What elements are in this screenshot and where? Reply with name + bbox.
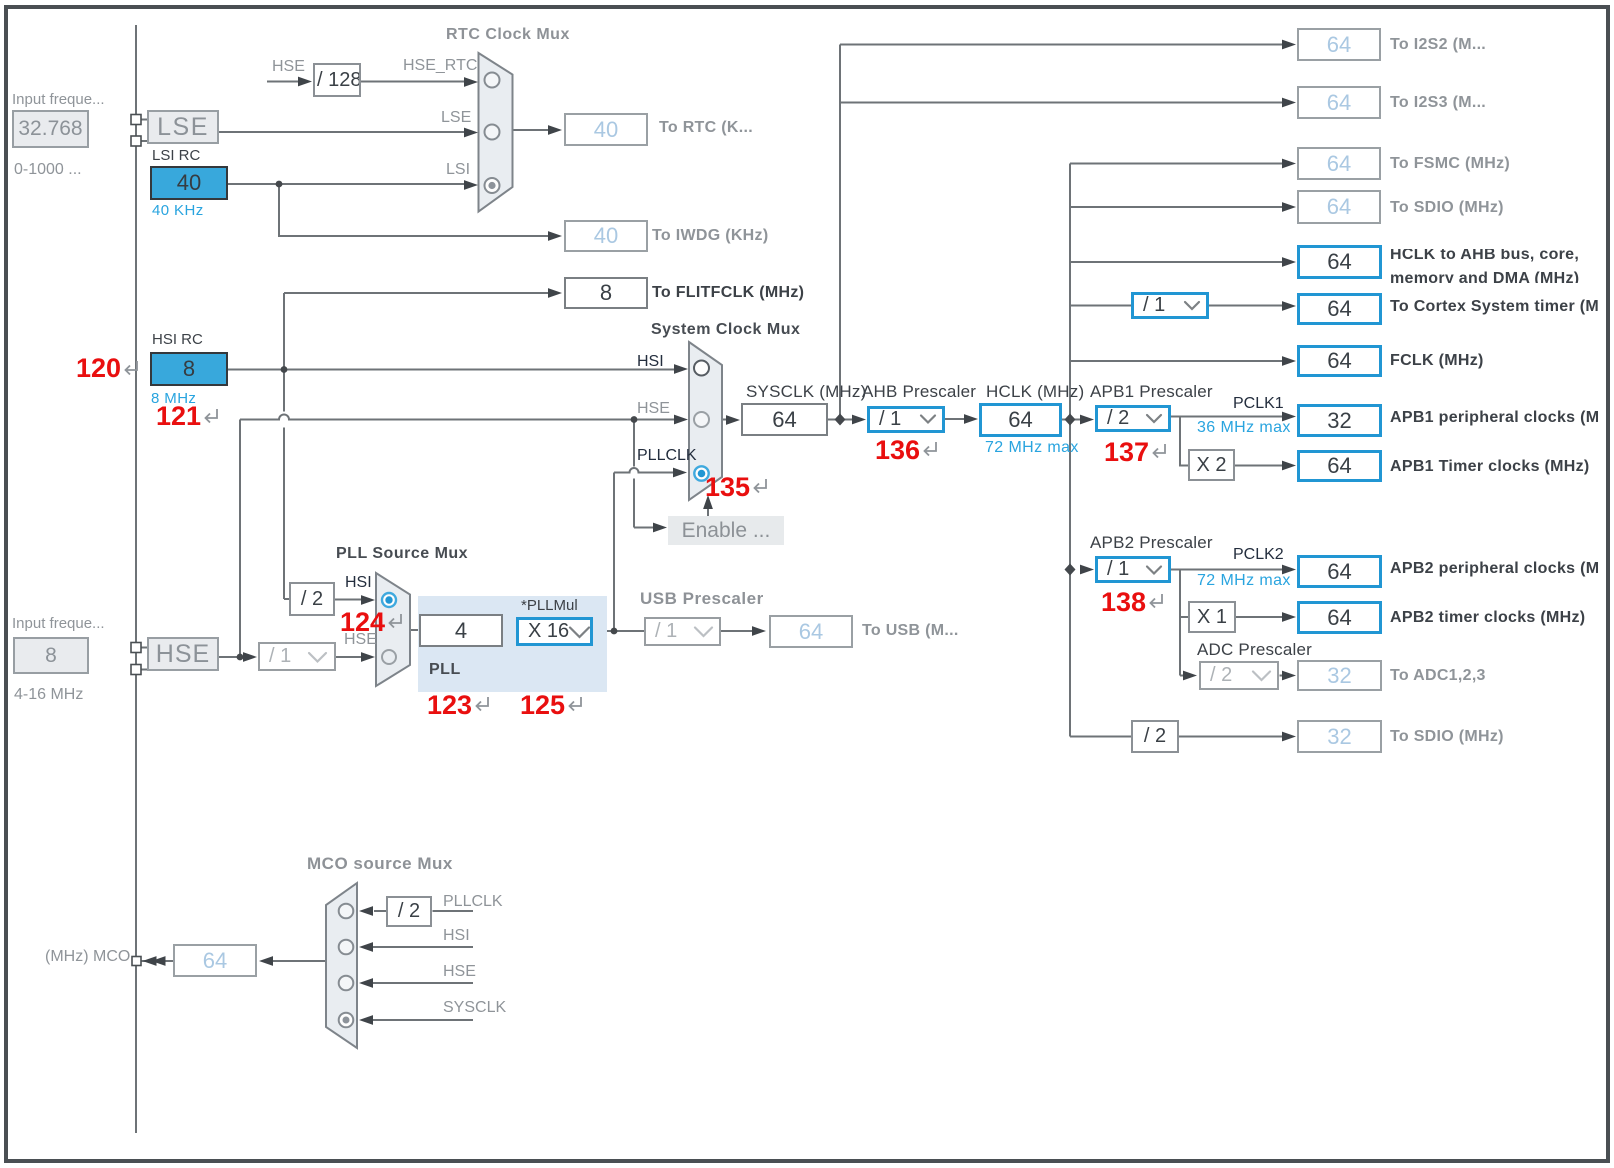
HSE oscillator block — [147, 637, 219, 671]
wire: /128 to RTC mux HSE_RTC input — [361, 81, 466, 83]
arrow into APB1 peripheral box — [1282, 412, 1296, 422]
label To IWDG — [652, 227, 768, 245]
arrow into RTC mux LSE — [464, 128, 478, 138]
label Input frequency (LSE) — [12, 91, 105, 108]
APB2 peripheral value box 64 — [1297, 555, 1382, 588]
APB2 prescaler dropdown /1 — [1095, 556, 1171, 583]
wire: /2 box to PLL mux HSI input — [335, 599, 363, 601]
LSE input frequency box 32.768 — [12, 110, 89, 148]
arrow into APB2 peripheral box — [1282, 565, 1296, 575]
SYSCLK value box 64 — [741, 403, 828, 436]
wire: HSE net vertical up — [239, 420, 241, 658]
arrow into To RTC box — [548, 125, 562, 135]
MCO mux radio SYSCLK (selected gray) — [339, 1013, 354, 1028]
label HCLK to AHB (2 lines, clipped) — [1390, 249, 1579, 283]
To IWDG value box — [564, 220, 648, 252]
arrow into To FLITFCLK box — [548, 288, 562, 298]
wire: X1 to APB2 timer box — [1236, 616, 1283, 618]
label PLLCLK (MCO input) — [443, 893, 503, 911]
label FCLK — [1390, 352, 1484, 370]
HCLK to AHB value box — [1297, 245, 1382, 279]
arrow left into MCO mux SYSCLK — [359, 1015, 373, 1025]
red annotation 121 — [156, 403, 201, 430]
label HSE (to /128) — [272, 58, 305, 76]
MCO output value box 64 — [173, 944, 257, 977]
MCO mux radio HSI (unselected) — [339, 940, 354, 955]
wire: MCO HSE stub — [372, 982, 473, 984]
label HSE (PLL mux input) — [344, 631, 377, 649]
arrow into PLL mux HSI — [361, 595, 375, 605]
port square MCO — [132, 957, 141, 966]
Cortex timer dropdown /1 — [1131, 292, 1209, 319]
System mux radio HSI (unselected) — [694, 361, 709, 376]
System mux radio HSE (unselected) — [694, 412, 709, 427]
To I2S2 value box — [1297, 28, 1381, 61]
arrow into I2S3 box — [1282, 98, 1296, 108]
arrow into FSMC box — [1282, 159, 1296, 169]
return glyph for 137 — [1150, 442, 1170, 460]
PLL mux radio HSE (unselected) — [382, 650, 396, 664]
chevron USB prescaler /1 — [695, 628, 712, 637]
return glyph for 123 — [473, 695, 493, 713]
arrow into APB2 prescaler — [1080, 565, 1094, 575]
label APB2 peripheral clocks — [1390, 560, 1599, 578]
red annotation 125 — [520, 692, 565, 719]
arrow into APB1 prescaler — [1080, 415, 1094, 425]
USB prescaler dropdown /1 — [644, 617, 721, 646]
arrow into To USB box — [752, 626, 766, 636]
label APB1 Prescaler — [1090, 382, 1213, 402]
wire: HSI vertical into /2 box — [284, 598, 289, 600]
AHB prescaler dropdown /1 — [867, 406, 945, 433]
arrow into FCLK box — [1282, 356, 1296, 366]
APB2 timer value box 64 — [1297, 601, 1382, 634]
wire: HCLK trunk vertical — [1069, 164, 1071, 737]
wire: APB1 branch down to X2 — [1180, 417, 1188, 466]
label To Cortex System timer — [1390, 298, 1599, 316]
arrow into HCLK AHB box — [1282, 257, 1296, 267]
label To FSMC — [1390, 155, 1510, 173]
wire: MCO HSI stub — [372, 946, 473, 948]
junction dot PLLCLK-USB — [611, 628, 618, 635]
return glyph for 121 — [202, 407, 222, 425]
MCO divider box /2 — [386, 896, 432, 927]
APB1 peripheral value box 32 — [1297, 404, 1382, 437]
label LSI RC — [152, 147, 200, 164]
label 4-16 MHz — [14, 686, 83, 704]
MCO source Mux body (mirrored) — [326, 883, 357, 1048]
red annotation 137 — [1104, 439, 1149, 466]
RTC mux radio HSE_RTC (unselected) — [485, 73, 500, 88]
RTC mux radio LSI (selected gray) — [485, 178, 500, 193]
SDIO divider box /2 — [1131, 720, 1179, 753]
ADC prescaler dropdown /2 — [1199, 661, 1279, 690]
wire: System mux out to SYSCLK box — [722, 419, 727, 421]
label To I2S3 — [1390, 94, 1486, 112]
label HSE (MCO input) — [443, 963, 476, 981]
wire: PLLCLK vertical up, then right with hop over x634, to System mux — [614, 468, 673, 631]
label APB2 timer clocks — [1390, 609, 1585, 627]
wire: MCO 64 box to port — [141, 960, 173, 962]
label PLL — [429, 661, 461, 679]
label To ADC1,2,3 — [1390, 667, 1486, 685]
label HSI (system mux input) — [637, 353, 664, 371]
return glyph for 136 — [921, 440, 941, 458]
chevron APB2 prescaler — [1147, 567, 1161, 574]
arrow left into MCO mux HSI — [359, 942, 373, 952]
wire: MCO /2 stub and PLLCLK stub — [374, 910, 473, 912]
arrow into AHB prescaler — [852, 415, 866, 425]
PLLMul dropdown X16 — [516, 617, 593, 646]
PLL block background — [418, 596, 607, 692]
wire: HSE box out through junction to /1 prescaler — [219, 656, 246, 658]
arrow into /128 — [298, 77, 312, 87]
arrow into HSE prediv /1 — [243, 652, 257, 662]
return glyph for 138 — [1147, 592, 1167, 610]
label LSE mux input — [441, 109, 471, 127]
arrow into Cortex box — [1282, 301, 1296, 311]
label To FLITFCLK — [652, 284, 804, 302]
arrow left into MCO mux HSE — [359, 978, 373, 988]
label 40 KHz — [152, 202, 204, 219]
wire: HSI RC to System Clock Mux — [228, 369, 677, 371]
divider /128 box — [313, 63, 361, 97]
label To SDIO (MHz) bottom — [1390, 728, 1504, 746]
label HSI (PLL mux input) — [345, 574, 372, 592]
label APB2 Prescaler — [1090, 533, 1213, 553]
wire: RTC mux output to To RTC box — [513, 129, 550, 131]
wire: APB2 prescaler out to APB2 peripheral box — [1171, 569, 1283, 571]
label PCLK1 — [1233, 395, 1284, 413]
arrow into ADC box — [1282, 671, 1296, 681]
label 72 MHz max (HCLK) — [985, 439, 1079, 457]
red annotation 124 — [340, 609, 385, 636]
label To SDIO — [1390, 199, 1504, 217]
arrow into Enable box — [653, 523, 667, 533]
System mux radio PLLCLK (selected blue) — [694, 466, 708, 480]
red annotation 135 — [705, 474, 750, 501]
RTC Clock Mux body — [479, 53, 513, 212]
arrow into PLL mux HSE — [361, 652, 375, 662]
wire: SYSCLK trunk up to I2S rows — [840, 45, 1283, 420]
wire: LSE to RTC mux — [219, 131, 466, 133]
HSE prediv dropdown /1 — [258, 642, 336, 671]
wire: X2 to APB1 timer box — [1235, 465, 1283, 467]
wire: trunk to HCLK AHB box — [1070, 261, 1283, 263]
chevron Cortex /1 — [1185, 302, 1199, 309]
label HSI (MCO input) — [443, 927, 470, 945]
wire: X16 out to USB prescaler (junction at 614) — [593, 630, 644, 632]
red annotation 136 — [875, 437, 920, 464]
wire: LSI RC to RTC mux (junction at 279) — [228, 183, 467, 185]
wire: HCLK box to APB1 prescaler — [1062, 419, 1081, 421]
label APB1 peripheral clocks — [1390, 409, 1599, 427]
RTC mux radio LSE (unselected) — [485, 125, 500, 140]
HSE input frequency box 8 — [13, 637, 89, 674]
arrow left into MCO 64 box — [259, 956, 273, 966]
wire: APB2 branch down to X1 and ADC prescaler — [1180, 570, 1188, 676]
arrow into APB2 timer box — [1282, 612, 1296, 622]
label 72 MHz max (APB2) — [1197, 572, 1291, 590]
label To USB — [862, 622, 959, 640]
label *PLLMul — [521, 597, 578, 614]
X1 multiplier box — [1188, 601, 1236, 633]
wire: PLL 4 box to X16 — [503, 630, 516, 632]
label (MHz) MCO — [45, 948, 130, 966]
To SDIO 32 value box — [1297, 720, 1382, 753]
To FSMC value box — [1297, 147, 1381, 180]
junction diamond HCLK-APB2 — [1065, 564, 1076, 576]
label SYSCLK (MCO input) — [443, 999, 506, 1017]
To FLITFCLK value box — [564, 277, 648, 309]
wire: HSE stub to /128 — [267, 81, 301, 83]
junction dot HSE — [237, 654, 244, 661]
label LSI mux input — [446, 161, 470, 179]
HSI prediv box /2 — [289, 582, 335, 616]
chevron AHB prescaler — [921, 416, 935, 423]
title RTC Clock Mux — [446, 26, 570, 44]
wire: USB prescaler to USB box — [721, 630, 753, 632]
wire: LSE port stubs — [141, 120, 148, 142]
label To RTC — [659, 119, 753, 137]
arrow into ADC prescaler — [1183, 671, 1197, 681]
label 8 MHz — [151, 390, 196, 407]
label APB1 Timer clocks — [1390, 458, 1590, 476]
label HSE (system mux input) — [637, 400, 670, 418]
junction diamond HCLK-APB1 — [1065, 414, 1076, 426]
arrow into HCLK box — [964, 414, 978, 424]
port squares LSE — [131, 115, 141, 125]
return glyph for 120 — [122, 359, 142, 377]
label PCLK2 — [1233, 546, 1284, 564]
port squares HSE — [131, 643, 141, 653]
chevron ADC prescaler /2 — [1253, 672, 1270, 681]
To I2S3 value box — [1297, 86, 1381, 119]
wire: HSI branch vertical to FLITFCLK and down to PLL /2 (broken at hop) — [283, 293, 285, 599]
wire: trunk to Cortex /1 and to Cortex box — [1070, 305, 1283, 307]
To SDIO value box — [1297, 190, 1381, 224]
X2 multiplier box — [1188, 449, 1235, 481]
junction dot LSI — [276, 181, 283, 188]
label 36 MHz max — [1197, 419, 1291, 437]
wire: trunk to SDIO /2 and to SDIO box — [1070, 736, 1283, 738]
arrow left into MCO mux from /2 — [359, 906, 373, 916]
LSI RC value box 40 (blue) — [150, 166, 228, 200]
wire: HSE port stubs — [141, 648, 148, 670]
System Clock Mux body — [689, 342, 722, 500]
wire: LSI branch down to IWDG — [279, 184, 549, 236]
arrow into SDIO 32 box — [1282, 732, 1296, 742]
label To I2S2 — [1390, 36, 1486, 54]
wire: trunk to SDIO — [1070, 206, 1283, 208]
PLL Source Mux body — [376, 573, 410, 686]
return glyph for 125 — [566, 695, 586, 713]
arrow into System mux PLLCLK — [673, 468, 687, 478]
arrow into RTC mux HSE_RTC — [464, 77, 478, 87]
title MCO source Mux — [307, 854, 453, 874]
chevron APB1 prescaler — [1147, 415, 1161, 422]
APB1 prescaler dropdown /2 — [1095, 405, 1171, 432]
label SYSCLK (MHz) — [746, 382, 866, 402]
arrow into SDIO box — [1282, 202, 1296, 212]
chevron HSE prediv /1 — [309, 653, 326, 662]
return glyph for 124 — [386, 612, 406, 630]
title System Clock Mux — [651, 321, 800, 339]
wire: PLL mux output to PLL input box — [410, 629, 419, 631]
To ADC value box 32 — [1297, 660, 1382, 691]
To RTC value box — [564, 113, 648, 146]
Enable box — [668, 516, 784, 545]
label ADC Prescaler — [1197, 640, 1312, 660]
red annotation 120 — [76, 355, 121, 382]
label PLLCLK (system mux input) — [637, 447, 697, 465]
wire: HSE junction down to Enable box — [634, 420, 654, 528]
junction dot HSI — [281, 366, 288, 373]
wire: main input trunk vertical — [135, 25, 137, 1133]
wire: /1 prescaler to PLL mux HSE input — [336, 656, 363, 658]
wire: APB1 prescaler out to APB1 peripheral box — [1171, 416, 1283, 418]
wire: trunk to FSMC — [1070, 163, 1283, 165]
label Input frequency (HSE) — [12, 615, 105, 632]
wire: MCO mux output to 64 box — [272, 960, 326, 962]
label 0-1000 range — [14, 161, 82, 179]
LSE oscillator block — [147, 110, 219, 144]
junction diamond SYSCLK — [835, 414, 846, 426]
PLL mux radio HSI (selected blue) — [382, 593, 396, 607]
red annotation 123 — [427, 692, 472, 719]
arrow into SYSCLK box — [726, 415, 740, 425]
chevron X16 — [570, 628, 589, 638]
arrow into To IWDG box — [548, 231, 562, 241]
label HSE_RTC — [403, 57, 477, 75]
label AHB Prescaler — [862, 382, 976, 402]
wire: Enable box up-arrow stem into mux bottom — [707, 506, 709, 516]
HSI RC value box 8 (blue) — [150, 352, 228, 386]
APB1 timer value box 64 — [1297, 450, 1382, 482]
return glyph for 135 — [751, 477, 771, 495]
arrows left into MCO port — [143, 956, 157, 966]
arrow into System mux HSE — [674, 415, 688, 425]
MCO mux radio HSE (unselected) — [339, 976, 354, 991]
HCLK value box 64 — [979, 403, 1062, 437]
arrow into I2S2 box — [1282, 40, 1296, 50]
label HCLK (MHz) — [986, 382, 1084, 402]
wire: AHB prescaler to HCLK box — [945, 418, 965, 420]
label USB Prescaler — [640, 589, 764, 609]
wire: MCO SYSCLK stub — [372, 1019, 473, 1021]
MCO mux radio PLLCLK (unselected) — [339, 904, 354, 919]
title PLL Source Mux — [336, 545, 468, 563]
arrow into APB1 timer box — [1282, 461, 1296, 471]
arrow into RTC mux LSI — [464, 180, 478, 190]
wire: HSE to System Clock Mux with hop over HSI vertical — [240, 415, 676, 420]
label HSI RC — [152, 331, 203, 348]
wire: SYSCLK box to AHB prescaler — [828, 419, 853, 421]
PLL input value box 4 — [419, 614, 503, 647]
To USB value box 64 — [769, 615, 853, 648]
wire: ADC prescaler to ADC box — [1280, 675, 1284, 677]
arrow into System mux HSI — [674, 364, 688, 374]
FCLK value box — [1297, 345, 1382, 377]
To Cortex value box — [1297, 293, 1382, 325]
red annotation 138 — [1101, 589, 1146, 616]
junction dot HSE-sysmux — [631, 416, 638, 423]
wire: FLITFCLK horizontal — [284, 292, 549, 294]
arrow up into System mux from Enable — [703, 495, 713, 509]
wire: trunk to FCLK — [1070, 360, 1283, 362]
